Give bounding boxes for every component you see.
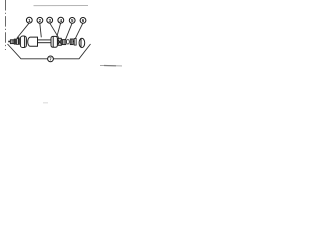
arrowhead leader 6 xyxy=(73,41,74,42)
callout circle 5 xyxy=(69,18,75,24)
axle shaft xyxy=(38,40,52,43)
top horizontal faint centerline xyxy=(34,5,89,7)
leader line callout 6 xyxy=(74,23,83,41)
leader line callout 5 xyxy=(65,23,72,41)
leader line callout 3 xyxy=(50,23,59,38)
callout circle 7 xyxy=(48,56,54,62)
bearing cup left xyxy=(20,36,26,48)
leader line callout 1 xyxy=(17,23,29,38)
callout circle 2 xyxy=(37,17,43,23)
leader line callout 2 xyxy=(40,23,42,37)
slotted nut xyxy=(70,39,73,45)
hub cylinder xyxy=(28,37,38,46)
callout circle 3 xyxy=(47,17,53,23)
cone with cross detail xyxy=(58,38,62,45)
flat washer xyxy=(74,39,76,46)
washer stack xyxy=(14,39,20,45)
callout circle 6 xyxy=(80,18,86,24)
callout circle 4 xyxy=(58,17,64,23)
leader line callout 4 xyxy=(56,23,61,39)
axle tip xyxy=(8,41,10,43)
bearing retainer xyxy=(62,40,65,45)
left vertical dash-dot centerline xyxy=(4,0,6,50)
bearing cup right xyxy=(51,36,57,47)
arrowhead leader 1 xyxy=(16,37,19,40)
arrowhead leader 5 xyxy=(64,41,65,42)
washer ring xyxy=(67,40,70,45)
bottom right short line xyxy=(100,64,122,67)
nut on axle tip xyxy=(10,40,13,44)
end nut xyxy=(79,38,85,47)
callout circle 1 xyxy=(26,17,32,23)
faint mark lower middle xyxy=(43,102,48,104)
assembly leader 7: left diagonal, horizontal, right diagonal xyxy=(8,44,91,59)
